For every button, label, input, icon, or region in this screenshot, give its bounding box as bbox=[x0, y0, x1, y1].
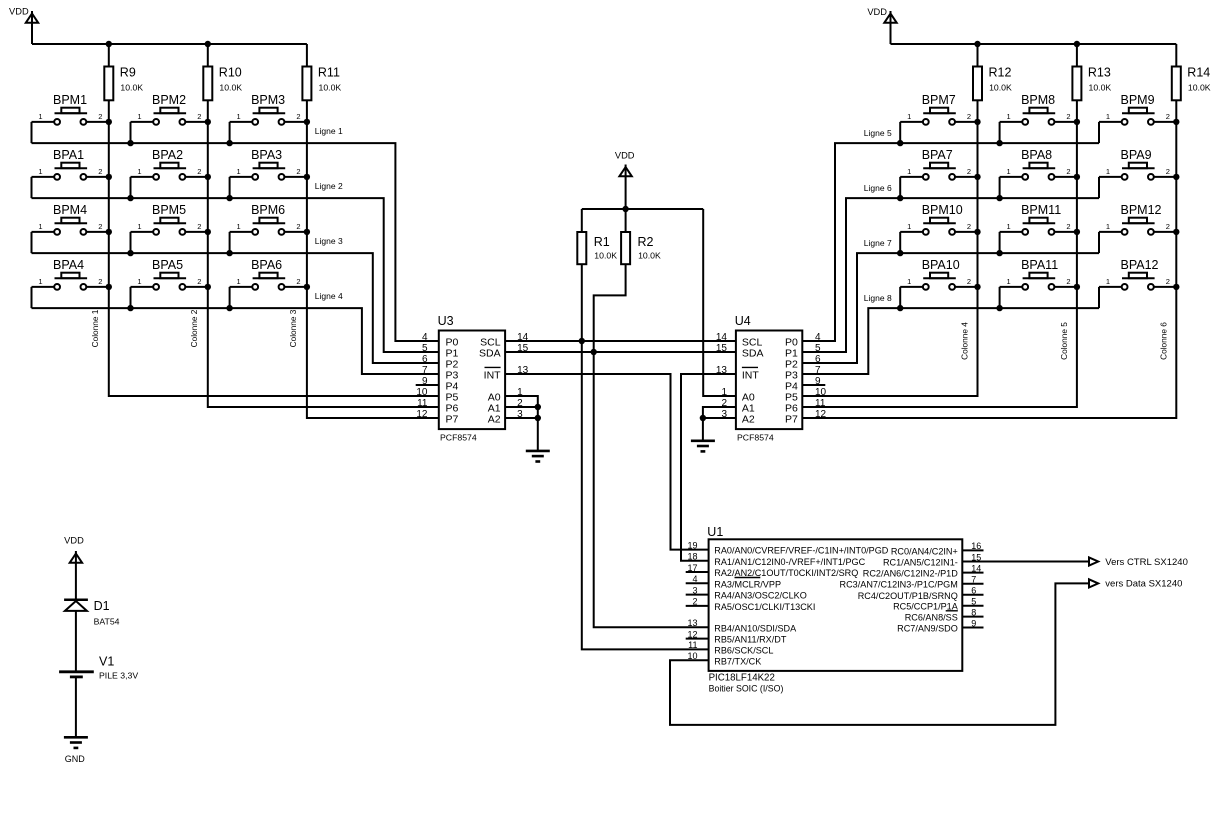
svg-text:1: 1 bbox=[38, 112, 42, 121]
push button BPM10 bbox=[900, 203, 977, 253]
wire VDD rail right keypad bbox=[891, 43, 1177, 45]
push button BPM4 bbox=[32, 203, 109, 253]
svg-text:BPA5: BPA5 bbox=[152, 258, 183, 272]
svg-text:R11: R11 bbox=[318, 66, 340, 80]
svg-text:Colonne 6: Colonne 6 bbox=[1158, 322, 1168, 360]
svg-text:2: 2 bbox=[98, 222, 102, 231]
svg-text:1: 1 bbox=[1007, 167, 1011, 176]
svg-text:4: 4 bbox=[422, 332, 428, 343]
svg-text:2: 2 bbox=[197, 167, 201, 176]
svg-text:RB6/SCK/SCL: RB6/SCK/SCL bbox=[714, 645, 773, 655]
svg-text:2: 2 bbox=[967, 112, 971, 121]
svg-text:P7: P7 bbox=[446, 414, 459, 426]
svg-text:BPA11: BPA11 bbox=[1021, 258, 1058, 272]
svg-text:Colonne 2: Colonne 2 bbox=[189, 309, 199, 347]
svg-text:1: 1 bbox=[38, 222, 42, 231]
svg-text:Boitier SOIC (I/SO): Boitier SOIC (I/SO) bbox=[709, 684, 784, 694]
svg-text:RA5/OSC1/CLKI/T13CKI: RA5/OSC1/CLKI/T13CKI bbox=[714, 602, 815, 612]
svg-text:RC6/AN8/SS: RC6/AN8/SS bbox=[905, 613, 958, 623]
pin stub U3 P4 (NC) bbox=[416, 384, 439, 386]
svg-text:2: 2 bbox=[296, 112, 300, 121]
svg-text:Ligne 4: Ligne 4 bbox=[315, 291, 343, 301]
pin stubs U1 left (NC) bbox=[686, 571, 709, 573]
svg-text:10.0K: 10.0K bbox=[120, 82, 143, 92]
svg-text:RA2/AN2/C1OUT/T0CKI/INT2/SRQ: RA2/AN2/C1OUT/T0CKI/INT2/SRQ bbox=[714, 568, 858, 578]
resistor R1 10.0K bbox=[577, 232, 617, 264]
junction BPA11 pin 2 on column bbox=[1074, 284, 1080, 290]
svg-text:BPM8: BPM8 bbox=[1021, 93, 1055, 107]
junction BPM11 pin 2 on column bbox=[1074, 229, 1080, 235]
svg-text:BPA10: BPA10 bbox=[922, 258, 960, 272]
svg-text:11: 11 bbox=[688, 640, 697, 650]
svg-text:1: 1 bbox=[237, 167, 241, 176]
svg-text:2: 2 bbox=[98, 112, 102, 121]
svg-text:BPA3: BPA3 bbox=[251, 148, 282, 162]
wire VDD to R12 bbox=[977, 44, 979, 67]
pin stub U4 P4 (NC) bbox=[802, 384, 825, 386]
wire VDD rail R1 R2 bbox=[582, 208, 703, 210]
svg-text:2: 2 bbox=[967, 277, 971, 286]
wire VDD to R1 bbox=[581, 209, 583, 232]
resistor R13 10.0K bbox=[1072, 66, 1111, 101]
svg-text:2: 2 bbox=[197, 277, 201, 286]
IC U4 PCF8574 bbox=[716, 314, 827, 442]
svg-text:BPM11: BPM11 bbox=[1021, 203, 1061, 217]
junction R9 top bbox=[106, 41, 112, 47]
svg-text:BPA2: BPA2 bbox=[152, 148, 183, 162]
svg-text:6: 6 bbox=[422, 354, 428, 365]
push button BPA6 bbox=[230, 258, 307, 308]
wire Ligne 1 to U3 P0 bbox=[32, 143, 439, 341]
junction R2 top bbox=[622, 206, 628, 212]
svg-text:Ligne 8: Ligne 8 bbox=[864, 293, 892, 303]
wire U3 A0 A1 A2 to ground bbox=[505, 396, 538, 451]
wire Ligne 7 to U4 P2 bbox=[802, 253, 1099, 363]
svg-text:19: 19 bbox=[687, 540, 697, 550]
junction BPA10 pin 2 on column bbox=[974, 284, 980, 290]
svg-text:U3: U3 bbox=[438, 314, 454, 328]
svg-text:SDA: SDA bbox=[742, 348, 764, 360]
svg-text:1: 1 bbox=[1106, 167, 1110, 176]
junction Ligne 2 col3 bbox=[226, 195, 232, 201]
svg-text:BPA1: BPA1 bbox=[53, 148, 84, 162]
wire Ligne 2 to U3 P1 bbox=[32, 198, 439, 352]
svg-text:1: 1 bbox=[38, 277, 42, 286]
svg-text:2: 2 bbox=[98, 167, 102, 176]
svg-text:P7: P7 bbox=[785, 414, 798, 426]
wire VDD to R2 bbox=[625, 209, 627, 232]
svg-text:VDD: VDD bbox=[64, 535, 84, 545]
svg-text:RA1/AN1/C12IN0-/VREF+/INT1/PGC: RA1/AN1/C12IN0-/VREF+/INT1/PGC bbox=[714, 557, 865, 567]
junction Ligne 6 col4 bbox=[897, 195, 903, 201]
resistor R2 10.0K bbox=[621, 232, 661, 264]
svg-text:Colonne 3: Colonne 3 bbox=[288, 309, 298, 347]
wire VDD to U4 A0 bbox=[703, 209, 736, 396]
svg-text:1: 1 bbox=[1106, 222, 1110, 231]
IC U1 PIC18LF14K22 bbox=[686, 525, 984, 694]
svg-text:SDA: SDA bbox=[479, 348, 501, 360]
junction Ligne 8 col5 bbox=[996, 305, 1002, 311]
wire Colonne 1 to U3 P5 bbox=[109, 100, 439, 396]
junction Ligne 1 col2 bbox=[127, 140, 133, 146]
junction BPA5 pin 2 on column bbox=[205, 284, 211, 290]
svg-text:10.0K: 10.0K bbox=[989, 82, 1012, 92]
push button BPM1 bbox=[32, 93, 109, 143]
output arrow vers Data SX1240 bbox=[1089, 579, 1182, 590]
ground bbox=[64, 737, 88, 764]
junction BPM6 pin 2 on column bbox=[304, 229, 310, 235]
svg-text:1: 1 bbox=[1106, 112, 1110, 121]
junction SDA / R2 bbox=[591, 349, 597, 355]
wire Ligne 4 to U3 P3 bbox=[32, 308, 439, 374]
svg-text:1: 1 bbox=[137, 222, 141, 231]
svg-text:R1: R1 bbox=[594, 235, 610, 249]
svg-text:10.0K: 10.0K bbox=[319, 82, 342, 92]
push button BPM8 bbox=[1000, 93, 1077, 143]
svg-text:1: 1 bbox=[137, 112, 141, 121]
svg-text:18: 18 bbox=[687, 552, 697, 562]
svg-text:7: 7 bbox=[422, 365, 428, 376]
resistor R11 10.0K bbox=[302, 66, 341, 101]
svg-text:RC1/AN5/C12IN1-: RC1/AN5/C12IN1- bbox=[883, 558, 958, 568]
push button BPA4 bbox=[32, 258, 109, 308]
svg-text:A2: A2 bbox=[488, 414, 501, 426]
svg-text:RB4/AN10/SDI/SDA: RB4/AN10/SDI/SDA bbox=[714, 623, 797, 633]
svg-text:BPM3: BPM3 bbox=[251, 93, 285, 107]
junction Ligne 3 col3 bbox=[226, 250, 232, 256]
power VDD bbox=[9, 7, 38, 44]
svg-text:Ligne 7: Ligne 7 bbox=[864, 238, 892, 248]
resistor R10 10.0K bbox=[203, 66, 242, 101]
svg-text:Ligne 1: Ligne 1 bbox=[315, 126, 343, 136]
junction Ligne 1 col3 bbox=[226, 140, 232, 146]
svg-text:BPA6: BPA6 bbox=[251, 258, 282, 272]
power VDD bbox=[615, 151, 635, 210]
resistor R14 10.0K bbox=[1172, 66, 1211, 101]
wire U3 INT to U1 RA0 bbox=[505, 374, 708, 550]
junction U4 A2 bbox=[700, 415, 706, 421]
junction BPM10 pin 2 on column bbox=[974, 229, 980, 235]
push button BPM11 bbox=[1000, 203, 1077, 253]
svg-text:BPM10: BPM10 bbox=[922, 203, 963, 217]
wire U4 A1 A2 to ground bbox=[703, 407, 736, 441]
junction SCL / R1 bbox=[579, 338, 585, 344]
svg-text:2: 2 bbox=[197, 222, 201, 231]
junction Ligne 3 col2 bbox=[127, 250, 133, 256]
svg-text:BPM9: BPM9 bbox=[1121, 93, 1155, 107]
junction U3 A1 bbox=[535, 404, 541, 410]
svg-text:10.0K: 10.0K bbox=[1188, 82, 1211, 92]
svg-text:2: 2 bbox=[1066, 277, 1070, 286]
svg-text:5: 5 bbox=[422, 343, 428, 354]
junction Ligne 8 col4 bbox=[897, 305, 903, 311]
wire D1 to V1 bbox=[75, 611, 77, 672]
ground bbox=[691, 441, 715, 452]
svg-text:10.0K: 10.0K bbox=[1089, 82, 1112, 92]
push button BPM6 bbox=[230, 203, 307, 253]
junction BPA2 pin 2 on column bbox=[205, 174, 211, 180]
svg-text:2: 2 bbox=[1166, 222, 1170, 231]
svg-text:1: 1 bbox=[1106, 277, 1110, 286]
junction BPA7 pin 2 on column bbox=[974, 174, 980, 180]
svg-text:Vers CTRL SX1240: Vers CTRL SX1240 bbox=[1105, 557, 1188, 568]
IC U3 PCF8574 bbox=[416, 314, 529, 442]
svg-text:INT: INT bbox=[484, 370, 502, 382]
svg-text:13: 13 bbox=[687, 618, 697, 628]
wire V1 to ground bbox=[75, 677, 77, 737]
battery V1 PILE 3,3V bbox=[59, 655, 138, 681]
svg-text:R10: R10 bbox=[219, 66, 242, 80]
wire SDA: U3 pin15 to U4 bbox=[505, 351, 736, 353]
push button BPA12 bbox=[1099, 258, 1176, 308]
wire VDD rail left keypad bbox=[32, 43, 307, 45]
wire R2 to SDA net bbox=[594, 264, 626, 352]
junction Ligne 6 col5 bbox=[996, 195, 1002, 201]
svg-text:RC0/AN4/C2IN+: RC0/AN4/C2IN+ bbox=[891, 546, 958, 556]
svg-text:2: 2 bbox=[967, 167, 971, 176]
svg-text:1: 1 bbox=[137, 277, 141, 286]
svg-text:1: 1 bbox=[907, 277, 911, 286]
output arrow Vers CTRL SX1240 bbox=[1089, 557, 1188, 568]
push button BPA3 bbox=[230, 148, 307, 198]
junction R12 top bbox=[974, 41, 980, 47]
junction R10 top bbox=[205, 41, 211, 47]
push button BPA5 bbox=[131, 258, 208, 308]
junction Ligne 5 col4 bbox=[897, 140, 903, 146]
diode D1 BAT54 bbox=[64, 599, 120, 626]
wire U4 INT to U1 RA1 bbox=[681, 374, 736, 561]
svg-text:2: 2 bbox=[296, 167, 300, 176]
push button BPA1 bbox=[32, 148, 109, 198]
junction R13 top bbox=[1074, 41, 1080, 47]
svg-text:1: 1 bbox=[137, 167, 141, 176]
svg-text:2: 2 bbox=[1066, 222, 1070, 231]
wire Colonne 6 to U4 P7 bbox=[802, 100, 1176, 418]
svg-text:PIC18LF14K22: PIC18LF14K22 bbox=[709, 673, 775, 684]
svg-text:BPM6: BPM6 bbox=[251, 203, 285, 217]
push button BPM2 bbox=[131, 93, 208, 143]
svg-text:BPA9: BPA9 bbox=[1121, 148, 1152, 162]
svg-text:Colonne 4: Colonne 4 bbox=[960, 322, 970, 360]
svg-text:BPA12: BPA12 bbox=[1121, 258, 1159, 272]
svg-text:RA3/MCLR/VPP: RA3/MCLR/VPP bbox=[714, 579, 781, 589]
svg-text:RA4/AN3/OSC2/CLKO: RA4/AN3/OSC2/CLKO bbox=[714, 591, 807, 601]
wire R1 to SCL net bbox=[581, 264, 583, 341]
svg-text:U1: U1 bbox=[707, 525, 723, 539]
svg-text:RC2/AN6/C12IN2-/P1D: RC2/AN6/C12IN2-/P1D bbox=[863, 569, 958, 579]
svg-text:2: 2 bbox=[1166, 277, 1170, 286]
svg-text:BPM4: BPM4 bbox=[53, 203, 87, 217]
svg-text:1: 1 bbox=[907, 167, 911, 176]
svg-text:Ligne 2: Ligne 2 bbox=[315, 181, 343, 191]
junction Ligne 5 col5 bbox=[996, 140, 1002, 146]
junction Ligne 4 col2 bbox=[127, 305, 133, 311]
svg-text:BPM12: BPM12 bbox=[1121, 203, 1162, 217]
junction BPA1 pin 2 on column bbox=[106, 174, 112, 180]
svg-text:14: 14 bbox=[716, 332, 728, 343]
svg-text:PILE 3,3V: PILE 3,3V bbox=[99, 671, 138, 681]
push button BPM3 bbox=[230, 93, 307, 143]
svg-text:10.0K: 10.0K bbox=[219, 82, 242, 92]
junction BPM3 pin 2 on column bbox=[304, 119, 310, 125]
svg-text:GND: GND bbox=[65, 754, 86, 764]
svg-text:1: 1 bbox=[907, 222, 911, 231]
wire VDD to R11 bbox=[306, 44, 308, 67]
push button BPM5 bbox=[131, 203, 208, 253]
resistor R12 10.0K bbox=[973, 66, 1012, 101]
wire VDD to R13 bbox=[1076, 44, 1078, 67]
push button BPA7 bbox=[900, 148, 977, 198]
svg-text:1: 1 bbox=[237, 222, 241, 231]
svg-text:BPM2: BPM2 bbox=[152, 93, 186, 107]
push button BPM9 bbox=[1099, 93, 1176, 143]
svg-text:1: 1 bbox=[38, 167, 42, 176]
svg-text:vers Data SX1240: vers Data SX1240 bbox=[1105, 579, 1182, 590]
resistor R9 10.0K bbox=[104, 66, 143, 101]
svg-text:10: 10 bbox=[416, 387, 428, 398]
junction Ligne 4 col3 bbox=[226, 305, 232, 311]
wire U1 RB7 to Data output bbox=[670, 583, 1089, 725]
svg-text:R12: R12 bbox=[989, 66, 1012, 80]
svg-text:BAT54: BAT54 bbox=[94, 617, 120, 627]
junction BPM4 pin 2 on column bbox=[106, 229, 112, 235]
svg-text:10.0K: 10.0K bbox=[638, 251, 661, 261]
wire SCL down to U1 RB6 bbox=[582, 341, 709, 649]
wire Colonne 3 to U3 P7 bbox=[307, 100, 439, 418]
svg-text:RB5/AN11/RX/DT: RB5/AN11/RX/DT bbox=[714, 635, 787, 645]
svg-text:Ligne 3: Ligne 3 bbox=[315, 236, 343, 246]
svg-text:2: 2 bbox=[98, 277, 102, 286]
svg-text:1: 1 bbox=[237, 277, 241, 286]
push button BPA2 bbox=[131, 148, 208, 198]
junction BPM2 pin 2 on column bbox=[205, 119, 211, 125]
svg-text:2: 2 bbox=[1066, 112, 1070, 121]
wire VDD to R10 bbox=[207, 44, 209, 67]
svg-text:1: 1 bbox=[1007, 112, 1011, 121]
junction BPA3 pin 2 on column bbox=[304, 174, 310, 180]
svg-text:PCF8574: PCF8574 bbox=[440, 432, 477, 442]
svg-text:RA0/AN0/CVREF/VREF-/C1IN+/INT0: RA0/AN0/CVREF/VREF-/C1IN+/INT0/PGD bbox=[714, 546, 889, 556]
svg-text:VDD: VDD bbox=[9, 7, 29, 17]
junction BPM5 pin 2 on column bbox=[205, 229, 211, 235]
junction BPA12 pin 2 on column bbox=[1173, 284, 1179, 290]
svg-text:R13: R13 bbox=[1088, 66, 1111, 80]
push button BPA9 bbox=[1099, 148, 1176, 198]
svg-text:RC4/C2OUT/P1B/SRNQ: RC4/C2OUT/P1B/SRNQ bbox=[858, 591, 958, 601]
junction Ligne 7 col5 bbox=[996, 250, 1002, 256]
wire VDD to R9 bbox=[108, 44, 110, 67]
junction U3 A2 bbox=[535, 415, 541, 421]
svg-text:12: 12 bbox=[416, 409, 428, 420]
svg-text:1: 1 bbox=[1007, 277, 1011, 286]
svg-text:BPA8: BPA8 bbox=[1021, 148, 1052, 162]
svg-text:Colonne 1: Colonne 1 bbox=[90, 309, 100, 347]
svg-text:BPA7: BPA7 bbox=[922, 148, 953, 162]
svg-text:2: 2 bbox=[197, 112, 201, 121]
ground bbox=[526, 451, 550, 462]
svg-text:PCF8574: PCF8574 bbox=[737, 432, 774, 442]
svg-text:2: 2 bbox=[1166, 112, 1170, 121]
push button BPA8 bbox=[1000, 148, 1077, 198]
svg-text:RC3/AN7/C12IN3-/P1C/PGM: RC3/AN7/C12IN3-/P1C/PGM bbox=[840, 580, 958, 590]
wire Ligne 6 to U4 P1 bbox=[802, 198, 1099, 352]
svg-text:D1: D1 bbox=[94, 599, 110, 613]
junction BPA6 pin 2 on column bbox=[304, 284, 310, 290]
junction BPM12 pin 2 on column bbox=[1173, 229, 1179, 235]
svg-text:U4: U4 bbox=[735, 314, 751, 328]
junction BPA4 pin 2 on column bbox=[106, 284, 112, 290]
svg-text:VDD: VDD bbox=[867, 7, 887, 17]
push button BPA10 bbox=[900, 258, 977, 308]
svg-text:1: 1 bbox=[907, 112, 911, 121]
junction BPM7 pin 2 on column bbox=[974, 119, 980, 125]
junction BPA8 pin 2 on column bbox=[1074, 174, 1080, 180]
svg-text:R14: R14 bbox=[1187, 66, 1210, 80]
svg-text:2: 2 bbox=[296, 277, 300, 286]
svg-text:Ligne 6: Ligne 6 bbox=[864, 183, 892, 193]
svg-text:A2: A2 bbox=[742, 414, 755, 426]
wire Ligne 3 to U3 P2 bbox=[32, 253, 439, 363]
svg-text:BPM5: BPM5 bbox=[152, 203, 186, 217]
svg-text:Ligne 5: Ligne 5 bbox=[864, 128, 892, 138]
wire Ligne 8 to U4 P3 bbox=[802, 308, 1099, 374]
junction BPM9 pin 2 on column bbox=[1173, 119, 1179, 125]
svg-text:V1: V1 bbox=[99, 655, 114, 669]
wire U1 RC1 to CTRL output bbox=[962, 561, 1089, 563]
svg-text:R9: R9 bbox=[120, 66, 136, 80]
svg-text:1: 1 bbox=[237, 112, 241, 121]
pin stubs U1 right bbox=[962, 549, 983, 551]
wire VDD to R14 bbox=[1175, 44, 1177, 67]
svg-text:INT: INT bbox=[742, 370, 760, 382]
junction BPM8 pin 2 on column bbox=[1074, 119, 1080, 125]
svg-text:BPA4: BPA4 bbox=[53, 258, 84, 272]
wire SDA down to U1 RB4 bbox=[594, 352, 709, 627]
wire SCL: U3 pin14 to U4 bbox=[505, 340, 736, 342]
svg-text:BPM7: BPM7 bbox=[922, 93, 956, 107]
wire Colonne 2 to U3 P6 bbox=[208, 100, 439, 407]
junction Ligne 2 col2 bbox=[127, 195, 133, 201]
wire Ligne 5 to U4 P0 bbox=[802, 143, 1099, 341]
push button BPM7 bbox=[900, 93, 977, 143]
push button BPM12 bbox=[1099, 203, 1176, 253]
svg-text:11: 11 bbox=[417, 398, 428, 409]
svg-text:2: 2 bbox=[1166, 167, 1170, 176]
push button BPA11 bbox=[1000, 258, 1077, 308]
junction BPA9 pin 2 on column bbox=[1173, 174, 1179, 180]
power VDD bbox=[867, 7, 896, 44]
svg-text:2: 2 bbox=[1066, 167, 1070, 176]
wire Colonne 4 to U4 P5 bbox=[802, 100, 977, 396]
junction BPM1 pin 2 on column bbox=[106, 119, 112, 125]
svg-text:RB7/TX/CK: RB7/TX/CK bbox=[714, 656, 761, 666]
svg-text:R2: R2 bbox=[638, 235, 654, 249]
svg-text:RC7/AN9/SDO: RC7/AN9/SDO bbox=[897, 624, 958, 634]
svg-text:BPM1: BPM1 bbox=[53, 93, 87, 107]
svg-text:2: 2 bbox=[296, 222, 300, 231]
svg-text:2: 2 bbox=[967, 222, 971, 231]
junction Ligne 7 col4 bbox=[897, 250, 903, 256]
svg-text:1: 1 bbox=[1007, 222, 1011, 231]
svg-text:Colonne 5: Colonne 5 bbox=[1059, 322, 1069, 360]
power VDD bbox=[64, 535, 84, 599]
svg-text:VDD: VDD bbox=[615, 151, 635, 161]
wire Colonne 5 to U4 P6 bbox=[802, 100, 1077, 407]
svg-text:10.0K: 10.0K bbox=[594, 251, 617, 261]
svg-text:15: 15 bbox=[716, 343, 728, 354]
